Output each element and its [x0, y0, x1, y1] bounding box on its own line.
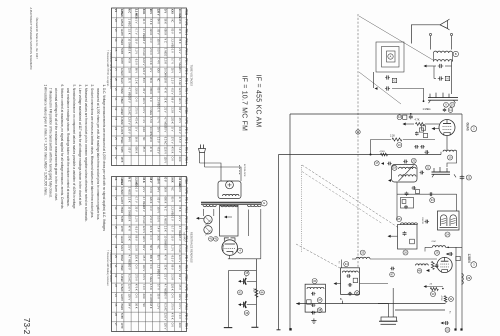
svg-text:NC: NC — [142, 303, 146, 307]
arrow at oscillator input — [381, 162, 384, 165]
svg-text:680 K: 680 K — [135, 147, 139, 154]
T4 internal cap C21 — [346, 275, 348, 277]
svg-text:18 K: 18 K — [164, 245, 168, 251]
svg-text:270 V: 270 V — [135, 107, 139, 114]
svg-text:NC: NC — [156, 78, 160, 82]
svg-text:12.6 V: 12.6 V — [164, 313, 168, 321]
wire B+ feed bus — [255, 259, 257, 328]
svg-text:12.6 V: 12.6 V — [142, 58, 146, 66]
svg-text:V7: V7 — [114, 156, 118, 160]
osc plate coil L2 — [443, 150, 457, 152]
wire T4 right — [360, 283, 389, 285]
svg-text:470 K: 470 K — [171, 313, 175, 320]
FM dipole antenna — [440, 21, 448, 29]
svg-text:19T8: 19T8 — [120, 58, 124, 64]
svg-text:47 K: 47 K — [149, 147, 153, 153]
AM loop antenna L1 — [376, 42, 404, 72]
svg-text:6.3 AC: 6.3 AC — [142, 216, 146, 224]
svg-text:12.6 V: 12.6 V — [128, 117, 132, 125]
svg-text:V7: V7 — [114, 68, 118, 72]
svg-text:47 K: 47 K — [178, 197, 182, 203]
svg-text:6.3 AC: 6.3 AC — [142, 48, 146, 56]
svg-text:0.7 V: 0.7 V — [135, 28, 139, 34]
arrow into RF tube grid — [403, 123, 406, 126]
svg-text:V4: V4 — [114, 127, 118, 131]
svg-text:4.7 MEG: 4.7 MEG — [164, 117, 168, 127]
svg-text:1 MEG: 1 MEG — [149, 274, 153, 282]
loop tuning capacitor C3 — [385, 77, 387, 79]
HV winding W2 — [221, 205, 239, 207]
svg-text:A PHOTOFACT STANDARD NOTATION: A PHOTOFACT STANDARD NOTATION SCHEMATIC — [29, 8, 33, 71]
svg-text:35W4: 35W4 — [120, 303, 124, 310]
svg-text:G: G — [393, 78, 395, 82]
svg-text:100 V: 100 V — [178, 127, 182, 134]
wire y247 left stub — [424, 247, 426, 251]
svg-text:1.5 K: 1.5 K — [149, 284, 153, 290]
wire rectifier output — [228, 258, 261, 260]
svg-text:OSC: OSC — [432, 241, 437, 243]
svg-text:56 K: 56 K — [149, 78, 153, 84]
C26 ref 38 — [317, 308, 322, 313]
FM antenna coil T1 primary — [434, 51, 453, 53]
svg-text:33 K: 33 K — [142, 177, 146, 183]
svg-text:2.2 MEG: 2.2 MEG — [156, 97, 160, 107]
svg-text:120 V: 120 V — [128, 294, 132, 301]
filament winding W3 — [248, 205, 262, 207]
svg-text:38: 38 — [318, 308, 321, 312]
svg-text:19: 19 — [449, 155, 452, 159]
wire B+ vertical bus left — [289, 114, 291, 329]
interlock fuse marks — [238, 165, 240, 175]
svg-text:V1: V1 — [114, 264, 118, 268]
C31 ref 17 — [374, 161, 379, 166]
C27 ref 45 — [244, 271, 249, 276]
filament winding W1 — [203, 205, 216, 207]
lamp ref 42 — [214, 237, 219, 242]
svg-text:.05 V: .05 V — [178, 284, 182, 290]
svg-text:0.5 V: 0.5 V — [142, 274, 146, 280]
svg-text:B-: B- — [340, 298, 343, 301]
svg-text:270 V: 270 V — [149, 216, 153, 223]
svg-text:35W4: 35W4 — [120, 38, 124, 45]
T2 cap C17 — [425, 221, 427, 223]
V1 grid box ref — [421, 126, 425, 130]
svg-text:33 K: 33 K — [142, 9, 146, 15]
V2 cathode cap C19 — [436, 264, 438, 265]
svg-text:0.5 V: 0.5 V — [178, 303, 182, 309]
cap C14 — [406, 192, 408, 194]
grid cap C13 — [412, 187, 414, 189]
AVC resistor R4 — [430, 288, 438, 291]
svg-text:470K: 470K — [440, 296, 442, 302]
cap C15 — [429, 193, 431, 195]
tube voltage chart table — [112, 8, 187, 166]
svg-text:50B5: 50B5 — [120, 147, 124, 154]
svg-text:21 V: 21 V — [128, 78, 132, 84]
svg-text:35 V: 35 V — [171, 235, 175, 241]
svg-text:21 V: 21 V — [142, 187, 146, 193]
loop left lead — [373, 72, 375, 88]
svg-text:270 V: 270 V — [149, 48, 153, 55]
svg-text:33 K: 33 K — [128, 68, 132, 74]
svg-text:120 V: 120 V — [142, 68, 146, 75]
L2 ref 19 — [448, 155, 453, 160]
svg-text:21 V: 21 V — [164, 274, 168, 280]
arrow inside plate box — [224, 216, 227, 219]
wire L6 to converter — [370, 258, 437, 260]
capacitor C29 near V1 top — [444, 108, 446, 109]
T4 primary top lead — [341, 260, 343, 268]
V3 ref 4 — [238, 248, 243, 253]
svg-text:100 V: 100 V — [142, 97, 146, 104]
svg-text:98 V: 98 V — [149, 177, 153, 183]
ref 12 — [397, 115, 402, 120]
svg-text:7.4 V: 7.4 V — [156, 226, 160, 232]
svg-text:T4: T4 — [338, 261, 340, 264]
svg-text:270 V: 270 V — [135, 274, 139, 281]
svg-text:120 V: 120 V — [156, 9, 160, 16]
svg-text:at normal settings for all of: at normal settings for all of the resist… — [54, 88, 58, 201]
coil ref B — [453, 51, 458, 56]
T3 ref 26 — [403, 250, 408, 255]
C11 ref 20 — [411, 158, 416, 163]
svg-text:6.3 AC: 6.3 AC — [128, 107, 132, 115]
svg-text:V2: V2 — [114, 274, 118, 278]
T4 ref 34 — [344, 262, 349, 267]
svg-text:12BE6: 12BE6 — [467, 254, 471, 264]
svg-text:35 V: 35 V — [156, 127, 160, 133]
svg-text:6. Volume control at maximum,: 6. Volume control at maximum, no signal … — [60, 85, 64, 210]
capacitor C6 — [416, 131, 418, 132]
svg-text:33 K: 33 K — [178, 206, 182, 212]
svg-text:0.5 V: 0.5 V — [178, 137, 182, 143]
svg-text:4.7 MEG: 4.7 MEG — [178, 58, 182, 68]
svg-text:O V: O V — [149, 68, 153, 73]
svg-text:-8.5 V: -8.5 V — [135, 226, 139, 233]
filter choke resistor R6 — [255, 289, 258, 298]
svg-text:V8: V8 — [114, 245, 118, 249]
osc coil L4 — [432, 246, 445, 248]
plate ref box — [456, 256, 460, 260]
svg-text:18 K: 18 K — [149, 303, 153, 309]
T5 ref 37 — [317, 298, 322, 303]
svg-text:4.7 MEG: 4.7 MEG — [164, 284, 168, 294]
svg-text:18: 18 — [393, 166, 396, 170]
svg-text:V3: V3 — [114, 284, 118, 288]
svg-text:6.3 AC: 6.3 AC — [178, 78, 182, 86]
AVC arrow into loop — [375, 87, 378, 90]
svg-text:3.3 K: 3.3 K — [171, 274, 175, 280]
svg-text:1. D.C. Voltage measurements a: 1. D.C. Voltage measurements are measure… — [102, 85, 106, 232]
rectifier plate box — [220, 206, 239, 237]
svg-text:47 K: 47 K — [128, 226, 132, 232]
capacitor C31 — [387, 163, 389, 165]
terminal square 5 — [454, 328, 456, 330]
svg-text:IF = 10.7 MC FM: IF = 10.7 MC FM — [241, 76, 248, 132]
wire AVC vertical drop — [278, 155, 280, 328]
svg-text:0.7 V: 0.7 V — [156, 284, 160, 290]
speaker and output transformer housing — [218, 181, 241, 199]
svg-text:XXX: XXX — [171, 9, 175, 14]
svg-text:10 OHM: 10 OHM — [128, 38, 132, 47]
svg-text:V5: V5 — [114, 303, 118, 307]
svg-text:4.7 MEG: 4.7 MEG — [142, 28, 146, 38]
svg-text:.25: .25 — [429, 284, 433, 286]
grid resistor R1 — [416, 123, 425, 126]
terminal tick 3 — [277, 329, 281, 331]
T4 top coil — [342, 271, 358, 273]
svg-text:1.5 K: 1.5 K — [149, 117, 153, 123]
FM RF amplifier tube V1 — [439, 120, 455, 136]
AM converter tube V2 — [437, 257, 452, 272]
C20 ref 32 — [445, 327, 450, 332]
svg-text:1.2 V: 1.2 V — [171, 78, 175, 84]
svg-text:50B5: 50B5 — [120, 313, 124, 320]
svg-text:V7: V7 — [114, 323, 118, 327]
svg-text:12AU6: 12AU6 — [120, 235, 124, 243]
svg-text:-8.5 V: -8.5 V — [156, 147, 160, 154]
chassis ground symbol — [378, 303, 389, 317]
wire into chassis — [392, 287, 394, 289]
W3 right lead — [260, 209, 262, 259]
trimmer capacitor C2 — [438, 78, 440, 80]
svg-text:.05 V: .05 V — [142, 88, 146, 94]
svg-text:31: 31 — [450, 297, 453, 301]
svg-text:18 K: 18 K — [128, 216, 132, 222]
svg-text:50B5: 50B5 — [120, 48, 124, 55]
svg-text:N C: N C — [128, 177, 132, 182]
T5 top coil — [307, 287, 324, 289]
terminal bar 1 — [224, 327, 233, 329]
svg-text:-1 V: -1 V — [135, 187, 139, 192]
svg-text:V8: V8 — [114, 78, 118, 82]
C30 ref 47 — [390, 272, 395, 277]
gang ghost diagonal lower — [296, 244, 340, 268]
svg-text:21 V: 21 V — [178, 216, 182, 222]
svg-text:25: 25 — [398, 217, 401, 221]
svg-text:V6: V6 — [114, 147, 118, 151]
svg-text:18 K: 18 K — [178, 19, 182, 25]
ref 13 box — [403, 115, 407, 119]
wire B- return horizontal — [296, 303, 445, 305]
svg-text:26: 26 — [404, 250, 407, 254]
svg-text:45: 45 — [245, 271, 248, 275]
svg-text:22: 22 — [467, 175, 470, 179]
wire B+ horizontal bus — [290, 113, 462, 115]
svg-text:34: 34 — [345, 262, 348, 266]
electrolytic C27 — [238, 280, 241, 283]
svg-text:36: 36 — [313, 279, 316, 283]
coupling capacitor C1 — [438, 65, 440, 67]
svg-text:20: 20 — [412, 159, 415, 163]
svg-text:V3: V3 — [114, 117, 118, 121]
svg-text:93 V: 93 V — [178, 68, 182, 74]
svg-text:93 V: 93 V — [142, 206, 146, 212]
svg-text:2.2 MEG: 2.2 MEG — [135, 9, 139, 19]
wire from coil to FM gang — [451, 61, 453, 95]
svg-text:35W4: 35W4 — [120, 137, 124, 144]
svg-text:2.2 MEG: 2.2 MEG — [156, 264, 160, 274]
pilot lamp P1 — [204, 216, 212, 224]
V2 grid resistor R3 — [431, 261, 434, 269]
wire C1 to arrow — [426, 65, 436, 67]
loop antenna ref A — [388, 54, 393, 59]
svg-text:35W4: 35W4 — [221, 244, 225, 252]
padder capacitors C7 C8 — [414, 146, 416, 148]
T5 internal cap C24 — [311, 293, 313, 295]
svg-text:12AT6: 12AT6 — [120, 127, 124, 135]
arrow into T3 — [388, 235, 391, 238]
svg-text:24: 24 — [446, 232, 449, 236]
svg-text:7.4 V: 7.4 V — [142, 117, 146, 123]
svg-text:O V: O V — [171, 127, 175, 132]
C10 ref 22 — [466, 175, 471, 180]
svg-text:1.2 V: 1.2 V — [135, 48, 139, 54]
svg-text:10 OHM: 10 OHM — [164, 68, 168, 77]
svg-text:V1: V1 — [114, 177, 118, 181]
test point arrow at C1 — [424, 65, 427, 68]
T5 cap C25 — [311, 304, 313, 306]
arrow AVC — [424, 285, 427, 288]
svg-text:XXX: XXX — [171, 177, 175, 182]
svg-text:2.2 MEG: 2.2 MEG — [135, 177, 139, 187]
svg-text:O V: O V — [171, 156, 175, 161]
wire loop row to FM gang — [392, 88, 424, 90]
svg-text:V7: V7 — [114, 235, 118, 239]
svg-text:680 K: 680 K — [149, 88, 153, 95]
svg-text:12BA6: 12BA6 — [120, 117, 124, 125]
cap C12 — [420, 172, 422, 174]
FM tuning gang section — [428, 97, 458, 99]
svg-text:93 V: 93 V — [164, 127, 168, 133]
arrow into T4 — [334, 282, 337, 285]
svg-text:and resistance readings shown.: and resistance readings shown. Readings … — [66, 88, 70, 207]
svg-text:120 V: 120 V — [128, 127, 132, 134]
svg-text:XXX: XXX — [178, 323, 182, 328]
svg-text:-8.5 V: -8.5 V — [135, 58, 139, 65]
svg-text:35 V: 35 V — [135, 206, 139, 212]
svg-text:NC: NC — [171, 19, 175, 23]
svg-text:18 K: 18 K — [178, 187, 182, 193]
svg-text:6BA6: 6BA6 — [120, 255, 124, 262]
svg-text:19T8: 19T8 — [120, 156, 124, 162]
svg-text:270 V: 270 V — [171, 303, 175, 310]
svg-text:150: 150 — [252, 288, 254, 293]
gang ghost dotted vertical — [301, 165, 303, 252]
svg-text:1.2 V: 1.2 V — [171, 245, 175, 251]
svg-text:1.5 K: 1.5 K — [164, 226, 168, 232]
terminal square 4 — [289, 328, 291, 330]
FM IF transformer T3 box — [398, 225, 418, 250]
T4 cap C22 — [348, 284, 350, 286]
svg-text:120 V: 120 V — [178, 97, 182, 104]
svg-text:1 MEG: 1 MEG — [164, 48, 168, 56]
svg-text:7.4 V: 7.4 V — [178, 147, 182, 153]
svg-text:©Howard W. Sams & Co., Inc. 19: ©Howard W. Sams & Co., Inc. 1947 — [35, 18, 39, 60]
svg-text:-1 V: -1 V — [171, 48, 175, 53]
box with cap C16 — [401, 198, 414, 209]
svg-text:0.5 V: 0.5 V — [156, 48, 160, 54]
R5 ref 31 — [449, 297, 454, 302]
svg-text:1.2 V: 1.2 V — [156, 137, 160, 143]
svg-text:98 V: 98 V — [171, 264, 175, 270]
svg-text:6BE6: 6BE6 — [120, 264, 124, 271]
arrow at C18 — [446, 253, 449, 256]
C23 ref 35 — [355, 291, 360, 296]
C29 ref 11 — [448, 108, 453, 113]
svg-text:XXX: XXX — [156, 68, 160, 73]
svg-text:1.5 K: 1.5 K — [164, 58, 168, 64]
svg-text:0.7 V: 0.7 V — [156, 117, 160, 123]
svg-text:220 K: 220 K — [171, 117, 175, 124]
svg-text:10 OHM: 10 OHM — [149, 127, 153, 136]
dial cord diagonal below loop — [359, 72, 401, 104]
svg-text:4.7 MEG: 4.7 MEG — [178, 226, 182, 236]
gang ref 9 — [444, 102, 449, 107]
svg-text:33 K: 33 K — [178, 38, 182, 44]
C15 ref 23 — [430, 198, 435, 203]
svg-text:84 V: 84 V — [156, 187, 160, 193]
electrolytic C28 — [238, 303, 241, 306]
svg-text:56 K: 56 K — [135, 137, 139, 143]
svg-text:B: B — [455, 52, 457, 56]
svg-text:93 V: 93 V — [128, 97, 132, 103]
svg-text:V2: V2 — [114, 19, 118, 23]
arrow into L3 — [388, 179, 391, 182]
svg-text:10: 10 — [451, 103, 454, 107]
svg-text:56 K: 56 K — [149, 245, 153, 251]
bypass capacitor C5 on B+ bus — [410, 115, 412, 117]
svg-text:-1 V: -1 V — [156, 107, 160, 112]
svg-text:12AT6: 12AT6 — [120, 28, 124, 36]
L7 ref 48 — [417, 269, 422, 274]
svg-text:37: 37 — [318, 298, 321, 302]
svg-text:32: 32 — [446, 328, 449, 332]
svg-text:V5: V5 — [114, 48, 118, 52]
pilot lamp P2 — [204, 226, 212, 234]
svg-text:V2: V2 — [114, 107, 118, 111]
svg-text:1.5 K: 1.5 K — [128, 28, 132, 34]
svg-text:47 K: 47 K — [178, 28, 182, 34]
svg-text:3.3 K: 3.3 K — [149, 19, 153, 25]
svg-text:10 OHM: 10 OHM — [178, 177, 182, 186]
filter rail top — [229, 269, 257, 271]
svg-text:270 V: 270 V — [171, 137, 175, 144]
svg-text:85 V: 85 V — [156, 88, 160, 94]
svg-text:XXX: XXX — [142, 294, 146, 299]
svg-text:10 OHM: 10 OHM — [164, 235, 168, 244]
wire AVC horizontal bus — [279, 154, 442, 156]
svg-text:19T8: 19T8 — [120, 323, 124, 329]
gang ghost diagonal upper twin — [302, 172, 382, 224]
arrow at C20 — [441, 322, 444, 325]
svg-text:12BA6: 12BA6 — [120, 19, 124, 27]
svg-text:12.6 V: 12.6 V — [164, 147, 168, 155]
svg-text:1 MEG: 1 MEG — [128, 187, 132, 195]
AM IF transformer T4 box — [341, 268, 360, 295]
svg-text:V5: V5 — [114, 137, 118, 141]
svg-text:28: 28 — [436, 251, 439, 255]
interstage coil L6 — [356, 257, 370, 259]
arrow into V1 — [432, 127, 435, 130]
svg-text:23: 23 — [431, 198, 434, 202]
ref 43 — [238, 290, 243, 295]
svg-text:‡ Readings taken from socket.: ‡ Readings taken from socket. — [109, 250, 112, 283]
C3 ref box G — [392, 78, 396, 82]
L4 ref 28 — [435, 250, 440, 255]
svg-text:A: A — [390, 54, 392, 58]
svg-text:V4: V4 — [114, 294, 118, 298]
